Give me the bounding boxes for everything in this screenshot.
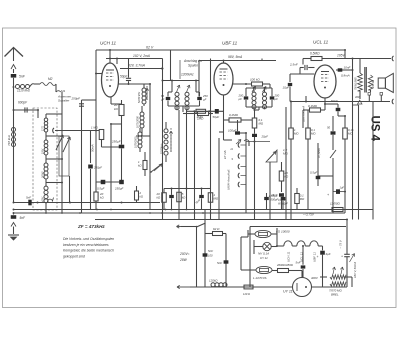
switch Bereichschalter arrows	[56, 135, 63, 150]
wire x286 vertical	[285, 107, 287, 220]
speaker	[378, 78, 385, 88]
svg-text:0,5µF: 0,5µF	[310, 171, 317, 175]
tuning arrow padder	[170, 128, 172, 152]
wire	[305, 96, 307, 102]
resistor 20k below tube	[110, 97, 112, 104]
capacitor 5nF psu2	[224, 260, 229, 263]
coil 1110kHz	[13, 86, 15, 88]
wire ucl cathode	[324, 98, 326, 104]
capacitor 50nF lower	[331, 131, 336, 134]
capacitor 5nF on y202	[28, 200, 31, 206]
capacitor 80pF	[166, 97, 171, 100]
speaker secondary coil	[368, 75, 372, 90]
capacitor 250uF bus	[119, 180, 124, 184]
resistor x136 bus	[135, 191, 139, 200]
bus y219.5	[95, 219, 347, 221]
capacitor 10nF	[336, 69, 352, 71]
wire x90 long	[90, 131, 92, 164]
resistor 5k bus x178	[177, 192, 182, 202]
resistor 0.1M lower	[306, 128, 311, 139]
svg-text:UY 11: UY 11	[283, 290, 293, 294]
svg-text:240 MΩ: 240 MΩ	[372, 80, 375, 89]
svg-text:5nF: 5nF	[296, 261, 301, 265]
svg-text:0,5µF: 0,5µF	[97, 187, 105, 191]
svg-text:UCH 11: UCH 11	[100, 41, 116, 46]
dial lamp loop	[240, 237, 242, 270]
svg-text:M2: M2	[48, 77, 53, 81]
wire x226 psu	[225, 234, 227, 288]
svg-text:50: 50	[327, 126, 331, 130]
svg-text:µF: µF	[239, 97, 243, 101]
svg-text:62 Ω: 62 Ω	[213, 227, 220, 231]
mains arrow	[177, 286, 191, 288]
svg-text:US 4: US 4	[369, 116, 381, 142]
svg-text:2,5nF: 2,5nF	[289, 63, 298, 67]
svg-text:1µF: 1µF	[340, 186, 345, 190]
terminal right mid	[290, 101, 390, 103]
coil L4	[44, 186, 48, 190]
svg-text:L 2270 PL: L 2270 PL	[253, 276, 267, 280]
svg-text:Die Vorkreis- und Oszillatorsp: Die Vorkreis- und Oszillatorspulen	[63, 237, 114, 241]
svg-text:4µF: 4µF	[326, 252, 331, 256]
wire psu bottom bus	[190, 286, 292, 288]
svg-text:+: +	[341, 255, 343, 259]
lamp L2270	[256, 266, 272, 273]
svg-text:250µF: 250µF	[114, 187, 123, 191]
speaker terminals	[368, 93, 371, 96]
svg-text:10nF: 10nF	[344, 66, 351, 70]
wire	[129, 83, 151, 85]
svg-text:5nF: 5nF	[19, 75, 26, 79]
capacitor 50uF series	[215, 109, 219, 114]
svg-text:– 75 V: – 75 V	[339, 239, 343, 249]
wire	[143, 84, 145, 88]
svg-text:52/80 kHz: 52/80 kHz	[138, 91, 141, 103]
capacitor 5nF ground	[13, 209, 15, 211]
wire grid ucl	[290, 73, 314, 75]
ground	[8, 234, 19, 236]
terminal sockets UKW	[238, 142, 239, 147]
resistor 1MOhm osc	[55, 130, 99, 132]
capacitor 250pF IF1	[197, 97, 202, 100]
svg-text:5nF: 5nF	[217, 261, 222, 265]
coil osc feedback 2	[140, 112, 144, 116]
IF transformer 2	[246, 87, 272, 89]
resistor 0.15M lower	[343, 128, 348, 139]
svg-text:MΩ: MΩ	[259, 122, 264, 126]
wire anode	[109, 50, 111, 64]
resistor on mains bus	[244, 285, 253, 289]
heater dropping resistor	[330, 275, 346, 279]
svg-text:748 kHz: 748 kHz	[7, 134, 11, 146]
terminal hook	[53, 128, 54, 133]
tube UY 11 rectifier	[293, 278, 312, 297]
wire x358 lower	[358, 105, 360, 220]
svg-text:250µF: 250µF	[111, 140, 121, 144]
svg-text:100: 100	[208, 254, 213, 258]
capacitor 5nF psu1	[203, 253, 208, 256]
svg-text:250pF: 250pF	[71, 97, 81, 101]
svg-text:400: 400	[355, 95, 360, 99]
svg-text:1MΩ: 1MΩ	[197, 115, 204, 119]
svg-text:7000Ω BREI: 7000Ω BREI	[356, 77, 358, 90]
wire x96 long	[95, 50, 97, 192]
wire	[276, 240, 278, 246]
coil padder	[164, 129, 168, 133]
wire y141.5	[246, 141, 270, 143]
capacitor 0.5uF	[101, 180, 106, 184]
svg-text:62 V: 62 V	[146, 46, 154, 50]
svg-text:besitzen je ein verschiebbares: besitzen je ein verschiebbares	[63, 243, 109, 247]
coil osc feedback 1	[142, 88, 146, 92]
tuning arrow	[146, 86, 148, 100]
svg-text:UY 11: UY 11	[260, 256, 268, 260]
svg-text:100µF: 100µF	[228, 129, 236, 133]
wire x150 long	[149, 176, 151, 186]
bus y209.5	[14, 209, 374, 211]
wire x290	[269, 84, 271, 88]
wire verticals mid	[170, 50, 172, 81]
svg-text:82V, 3,7mA: 82V, 3,7mA	[128, 64, 146, 68]
wire	[11, 65, 16, 70]
svg-text:UBF 11: UBF 11	[222, 41, 238, 46]
svg-text:ZF = 473kHz: ZF = 473kHz	[77, 224, 105, 229]
coil antenna primary	[11, 127, 15, 131]
svg-text:0,8mA: 0,8mA	[341, 74, 350, 78]
mains switch	[177, 226, 182, 228]
svg-text:50nF: 50nF	[331, 99, 338, 103]
wire	[246, 106, 272, 108]
svg-text:1075/2000: 1075/2000	[137, 116, 140, 128]
wire	[149, 84, 151, 202]
svg-text:180 V, 50mA: 180 V, 50mA	[353, 262, 357, 278]
wire	[168, 105, 200, 107]
svg-text:2000/: 2000/	[41, 171, 45, 179]
svg-text:0,5MΩ: 0,5MΩ	[310, 52, 320, 56]
resistor 20k right	[279, 171, 284, 181]
wire	[96, 73, 102, 75]
svg-text:500pF: 500pF	[271, 197, 279, 201]
svg-text:MΩ: MΩ	[214, 197, 219, 201]
svg-text:250µF: 250µF	[93, 166, 102, 170]
wire x262	[261, 59, 263, 61]
wire	[13, 78, 15, 110]
svg-text:1075/2000: 1075/2000	[135, 136, 138, 148]
svg-text:Schalter: Schalter	[58, 99, 70, 103]
wire bus x162	[162, 59, 164, 220]
resistor 20kOhm bus	[94, 192, 98, 201]
wire	[45, 114, 47, 118]
wire	[55, 84, 57, 92]
coil box dashed	[33, 108, 57, 210]
capacitor 200pF right	[270, 96, 275, 99]
capacitor 5nF antenna	[11, 74, 17, 78]
svg-text:120kΩ: 120kΩ	[209, 279, 218, 283]
wire mains x196	[196, 227, 198, 288]
capacitor 100uF	[235, 131, 240, 134]
svg-text:Spulen: Spulen	[188, 64, 198, 68]
wire x219 vertical	[218, 138, 220, 220]
switch anode	[330, 150, 336, 158]
coil osc feedback 3	[138, 132, 142, 136]
svg-text:UCH 11: UCH 11	[287, 251, 291, 262]
wire	[13, 110, 15, 202]
wire core down	[69, 176, 71, 203]
svg-text:10µF: 10µF	[283, 86, 290, 90]
capacitor 200pF left	[244, 96, 249, 99]
diode load wires	[223, 132, 225, 140]
wire	[320, 276, 327, 278]
coil L3	[44, 163, 48, 167]
wire	[61, 114, 63, 213]
svg-text:UCL 11: UCL 11	[313, 40, 329, 45]
svg-text:+: +	[327, 193, 329, 197]
capacitor 4uF +	[320, 251, 325, 255]
svg-text:0,1MΩ: 0,1MΩ	[308, 104, 318, 108]
coil IF1a	[175, 92, 179, 96]
resistor 0.1M vertical	[252, 118, 257, 128]
resistor 0.1M ucl	[310, 108, 321, 112]
lamp LG10000	[255, 230, 271, 237]
antenna	[5, 48, 24, 57]
wire y111.3	[187, 110, 224, 112]
svg-text:UKW-Anschluß: UKW-Anschluß	[227, 169, 231, 190]
transformer core	[364, 67, 366, 93]
switch hook y202	[47, 198, 53, 203]
resistor small osc	[143, 161, 147, 170]
svg-text:50µF: 50µF	[213, 115, 220, 119]
svg-text:ET mA: ET mA	[223, 150, 227, 159]
svg-text:100 kΩ: 100 kΩ	[250, 78, 260, 82]
coil L2	[44, 140, 48, 144]
svg-text:2600Ω/280Ω: 2600Ω/280Ω	[276, 263, 294, 267]
svg-text:200V≈: 200V≈	[179, 252, 190, 256]
coil IF2b	[262, 92, 266, 96]
svg-text:98V, 5mA: 98V, 5mA	[228, 55, 243, 59]
svg-text:120 Ω: 120 Ω	[243, 292, 250, 296]
wire x373	[372, 102, 374, 220]
wire x205 psu	[204, 210, 206, 288]
wire taps	[46, 135, 62, 137]
svg-text:105V: 105V	[337, 54, 346, 58]
svg-text:+: +	[317, 255, 319, 259]
lamp scale NV	[263, 242, 271, 250]
heater chain	[277, 245, 284, 247]
psu top line	[250, 226, 346, 228]
svg-text:µF: µF	[161, 98, 165, 102]
potentiometer 1.2M	[266, 150, 277, 162]
svg-text:– 0,75V: – 0,75V	[302, 213, 315, 217]
resistor 1MOhm IF	[198, 112, 209, 116]
resistor 0.1M bus right	[295, 194, 300, 204]
capacitor 5nF heater tap	[302, 245, 304, 247]
coil L1	[44, 118, 48, 122]
switch mid	[151, 163, 163, 172]
IF transformer 1	[163, 80, 200, 82]
capacitor 1uF cathode	[333, 191, 345, 193]
svg-text:LG 10000: LG 10000	[276, 230, 290, 234]
svg-text:20µF: 20µF	[261, 135, 269, 139]
wire y182	[96, 181, 122, 183]
coil IF1b	[185, 92, 189, 96]
bus y213	[14, 212, 346, 214]
svg-text:418/: 418/	[41, 197, 45, 202]
svg-text:5nF: 5nF	[26, 196, 31, 200]
svg-text:0,2MΩ: 0,2MΩ	[229, 113, 239, 117]
bus y202	[14, 202, 161, 204]
svg-text:400V: 400V	[311, 276, 319, 280]
core frame	[59, 136, 69, 176]
wire x81 long	[81, 100, 83, 213]
svg-text:µF: µF	[275, 97, 279, 101]
svg-text:1110 kHz: 1110 kHz	[17, 89, 30, 93]
svg-text:102 V, 2mA: 102 V, 2mA	[133, 54, 151, 58]
label leader	[179, 60, 181, 79]
capacitor 50nF ucl	[325, 103, 338, 105]
svg-text:1200kHz: 1200kHz	[181, 73, 194, 77]
svg-text:gekoppelt sind: gekoppelt sind	[63, 254, 85, 258]
svg-text:Kerngebiet, die beide mechanis: Kerngebiet, die beide mechanisch	[63, 249, 114, 253]
svg-text:µF: µF	[203, 98, 207, 102]
output transformer primary	[359, 59, 361, 74]
resistor 1MOhm grid	[196, 109, 206, 113]
svg-text:50mA: 50mA	[91, 144, 95, 152]
svg-text:28W: 28W	[179, 258, 188, 262]
svg-text:0,05µF: 0,05µF	[269, 194, 278, 198]
resistor 1MOhm x210 bottom	[207, 188, 211, 190]
svg-text:180/: 180/	[41, 149, 45, 154]
capacitor 10uF coupling	[289, 74, 291, 82]
capacitor + resistor x165	[164, 188, 207, 190]
capacitor 250uF osc	[88, 165, 93, 169]
svg-text:600pF: 600pF	[18, 101, 28, 105]
svg-text:117/: 117/	[41, 126, 45, 131]
terminal right top	[345, 58, 391, 60]
capacitor 50nF x203	[199, 195, 204, 198]
svg-text:12/50Ω: 12/50Ω	[330, 202, 341, 206]
wire x352 upper	[352, 59, 354, 220]
wire x224 lower	[219, 131, 224, 133]
svg-text:BREL: BREL	[331, 293, 339, 297]
resistor 100k	[233, 83, 251, 85]
svg-text:1 MΩ: 1 MΩ	[91, 126, 99, 130]
capacitor 20uF	[252, 134, 257, 137]
wire	[245, 133, 247, 213]
coil IF2a	[252, 92, 256, 96]
resistor 1M lower	[289, 128, 294, 139]
svg-text:5nF: 5nF	[208, 249, 213, 253]
switch M1	[56, 91, 61, 92]
